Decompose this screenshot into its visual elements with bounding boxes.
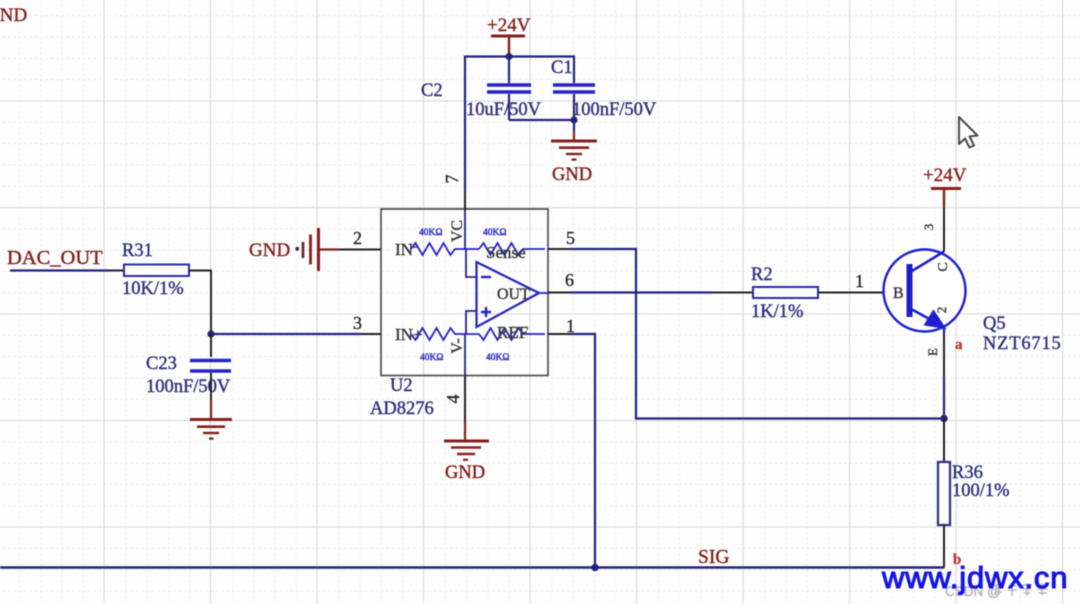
- internal resistor 40KΩ (top-left): [411, 228, 479, 255]
- wire node A to pin 3: [211, 333, 381, 335]
- svg-text:GND: GND: [0, 5, 27, 26]
- pin number 5: [566, 228, 575, 248]
- power port +24V (top): [487, 15, 531, 57]
- pin name OUT: [497, 286, 530, 303]
- svg-text:R36: R36: [952, 463, 983, 483]
- wire Sense feedback to emitter node: [570, 249, 944, 419]
- svg-text:E: E: [925, 348, 940, 356]
- svg-text:+24V: +24V: [923, 165, 967, 186]
- pin number 1 (REF): [566, 316, 575, 336]
- svg-text:GND: GND: [249, 240, 290, 261]
- pin 5 stub: [548, 248, 570, 250]
- svg-text:SIG: SIG: [698, 547, 729, 568]
- svg-text:1K/1%: 1K/1%: [751, 302, 803, 322]
- pin number 4 (rotated): [443, 395, 463, 404]
- net marker b: [953, 552, 961, 568]
- svg-text:100nF/50V: 100nF/50V: [146, 377, 231, 397]
- internal resistor 40KΩ (top-right): [479, 228, 545, 255]
- svg-text:C23: C23: [146, 354, 177, 374]
- svg-text:40KΩ: 40KΩ: [486, 353, 509, 363]
- Q5 collector pin label C (rotated): [936, 262, 951, 271]
- resistor R2: [751, 265, 818, 322]
- svg-text:1: 1: [855, 271, 864, 291]
- svg-text:2: 2: [353, 228, 362, 248]
- pin name Sense: [486, 243, 526, 262]
- svg-text:40KΩ: 40KΩ: [483, 228, 506, 238]
- capacitor C2: [421, 57, 542, 121]
- wire R36 to SIG: [943, 525, 945, 568]
- node E junction (REF to SIG): [591, 564, 598, 571]
- node C junction (C1 bottom): [570, 116, 577, 123]
- svg-text:R31: R31: [122, 241, 153, 261]
- pin name IN-: [395, 238, 417, 259]
- svg-text:3: 3: [921, 224, 936, 231]
- net label GND (top-left, clipped): [0, 5, 27, 26]
- svg-text:100nF/50V: 100nF/50V: [572, 100, 657, 120]
- capacitor C23: [146, 354, 231, 397]
- svg-text:NZT6715: NZT6715: [983, 334, 1062, 354]
- watermark www.jdwx.cn: [881, 560, 1068, 595]
- svg-text:40KΩ: 40KΩ: [420, 353, 443, 363]
- wire GND port to pin 2: [339, 249, 381, 251]
- svg-text:IN: IN: [395, 240, 413, 259]
- power port +24V (right): [923, 165, 967, 189]
- svg-text:40KΩ: 40KΩ: [419, 228, 442, 238]
- svg-text:2: 2: [934, 307, 949, 314]
- net label SIG: [698, 547, 729, 568]
- svg-text:5: 5: [566, 228, 575, 248]
- wire R31 to node A: [189, 271, 211, 335]
- pin name IN+: [395, 325, 423, 344]
- wire REF to SIG net: [570, 334, 595, 568]
- power port GND at pin 2: [249, 228, 339, 271]
- svg-text:C: C: [936, 262, 951, 271]
- pin name V- (rotated): [449, 338, 466, 353]
- wire node A to C23: [210, 334, 212, 357]
- svg-text:6: 6: [565, 270, 574, 290]
- pin number 7 (rotated): [442, 175, 462, 184]
- pin number 3: [353, 313, 362, 333]
- svg-text:VC: VC: [449, 220, 466, 242]
- pin 4 wire to ground: [464, 376, 466, 442]
- wire V- internal: [464, 334, 466, 375]
- wire node C to ground: [573, 120, 575, 141]
- resistor R31: [122, 241, 189, 299]
- wire R2 to Q5 base: [818, 292, 907, 294]
- ground symbol below C23: [190, 420, 232, 439]
- transistor Q5: [884, 250, 966, 332]
- svg-text:GND: GND: [552, 165, 592, 185]
- svg-text:Q5: Q5: [983, 314, 1006, 334]
- ground symbol GND (top): [551, 141, 597, 185]
- svg-text:www.jdwx.cn: www.jdwx.cn: [881, 560, 1068, 595]
- net label DAC_OUT: [7, 247, 103, 269]
- wire SIG bus: [0, 566, 945, 568]
- mouse cursor: [959, 117, 978, 148]
- wire DAC_OUT to R31: [10, 269, 124, 271]
- pin number 6: [565, 270, 574, 290]
- svg-text:DAC_OUT: DAC_OUT: [7, 247, 103, 269]
- pin 6 stub: [548, 292, 570, 294]
- pin 1 stub (REF): [548, 333, 570, 335]
- svg-text:3: 3: [353, 313, 362, 333]
- pin 7 wire to +24V rail: [465, 57, 509, 250]
- ground symbol GND (below U2): [444, 441, 489, 483]
- Q5 emitter pin label E (rotated): [925, 348, 940, 356]
- svg-text:10K/1%: 10K/1%: [122, 279, 184, 299]
- svg-text:C2: C2: [421, 81, 443, 101]
- wire Q5 emitter down to node D: [943, 326, 945, 419]
- internal resistor 40KΩ (bottom-left): [411, 328, 479, 363]
- op-amp U2 body: [370, 209, 548, 419]
- designator Q5 NZT6715: [983, 314, 1062, 354]
- net marker a: [955, 337, 963, 353]
- pin name REF: [497, 323, 528, 342]
- pin name VC (rotated): [449, 220, 466, 242]
- wire internal node to inverting input: [466, 249, 476, 277]
- svg-text:R2: R2: [751, 265, 773, 285]
- wire Q5 collector to +24V: [943, 189, 945, 252]
- svg-text:AD8276: AD8276: [370, 399, 434, 419]
- resistor R36: [938, 462, 1010, 525]
- wire +24V rail to C1: [509, 57, 574, 84]
- svg-text:U2: U2: [390, 376, 413, 396]
- svg-text:100/1%: 100/1%: [952, 481, 1010, 501]
- capacitor C1: [551, 58, 657, 120]
- node B junction (+24V rail): [505, 53, 512, 60]
- svg-text:C1: C1: [551, 58, 573, 78]
- Q5 collector pin number 3 (rotated): [921, 224, 936, 231]
- node D junction (emitter/sense/R36): [940, 415, 947, 422]
- Q5 emitter pin number 2 (rotated): [934, 307, 949, 314]
- wire internal node to non-inverting input: [466, 311, 476, 334]
- pin number 2: [353, 228, 362, 248]
- svg-text:V-: V-: [449, 338, 466, 353]
- op-amp triangle: [477, 262, 549, 327]
- svg-text:+24V: +24V: [487, 15, 531, 36]
- svg-text:REF: REF: [497, 323, 528, 342]
- internal resistor 40KΩ (bottom-right): [479, 328, 545, 363]
- wire C23 to ground: [210, 373, 212, 419]
- svg-text:a: a: [955, 337, 963, 353]
- svg-text:7: 7: [442, 175, 462, 184]
- svg-text:B: B: [893, 285, 904, 302]
- wire C2 bottom to C1 bottom: [509, 119, 574, 121]
- svg-text:4: 4: [443, 395, 463, 404]
- node A junction: [207, 330, 214, 337]
- watermark CSDN: [945, 583, 1047, 599]
- pin number 1 (Q5 base): [855, 271, 864, 291]
- svg-text:10uF/50V: 10uF/50V: [466, 100, 542, 120]
- wire node D to R36: [943, 419, 945, 463]
- svg-text:Sense: Sense: [486, 243, 526, 262]
- wire pin 6 to R2: [570, 291, 753, 293]
- svg-text:GND: GND: [445, 463, 485, 483]
- svg-text:OUT: OUT: [497, 286, 530, 303]
